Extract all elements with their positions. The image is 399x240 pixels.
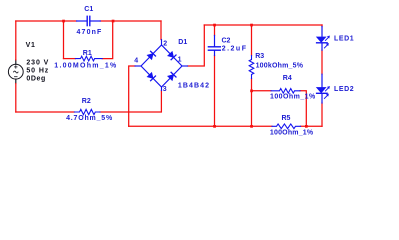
- wire R1 row right stub: [102, 21, 113, 59]
- wire C2 top stub: [214, 25, 216, 36]
- svg-text:50 Hz: 50 Hz: [26, 67, 49, 74]
- wire top rail left segment: [16, 20, 77, 22]
- wire R2 row left: [16, 111, 75, 113]
- svg-text:R3: R3: [255, 53, 264, 60]
- svg-text:R5: R5: [282, 115, 291, 122]
- svg-text:C2: C2: [222, 38, 231, 45]
- wire node2 riser: [160, 21, 162, 40]
- wire R3 bottom stub: [251, 79, 253, 127]
- LED LED1: [317, 27, 330, 51]
- svg-text:D1: D1: [178, 39, 187, 46]
- svg-text:LED1: LED1: [334, 35, 354, 42]
- junction rail/R1-loop-left: [62, 20, 65, 23]
- junction R3/R4 tap: [250, 90, 253, 93]
- svg-text:R2: R2: [82, 98, 91, 105]
- wire LED1 feed drop: [321, 25, 323, 27]
- diode D1d bottom-right arm: [168, 72, 176, 80]
- junction rail/C2 bottom: [213, 125, 216, 128]
- svg-text:3: 3: [163, 86, 167, 93]
- diode D1b top-right arm: [168, 52, 176, 60]
- svg-text:1: 1: [178, 56, 182, 63]
- wire node1 to DC+ riser: [188, 25, 205, 66]
- wires (red): [16, 21, 322, 126]
- wire R2 row right to node3 riser: [100, 91, 161, 113]
- wire LED1-LED2 series link: [321, 50, 323, 74]
- wire bottom rail right segment: [301, 125, 323, 127]
- resistor R4: [271, 89, 300, 94]
- wire C2 bottom stub: [214, 56, 216, 127]
- svg-text:230 V: 230 V: [26, 60, 49, 67]
- pin stubs: [161, 40, 163, 46]
- bridge rectifier D1: [135, 40, 188, 91]
- wire DC+ top rail: [204, 24, 322, 26]
- svg-text:R1: R1: [83, 50, 92, 57]
- svg-text:V1: V1: [26, 42, 36, 49]
- svg-text:100Ohm_1%: 100Ohm_1%: [270, 94, 316, 101]
- junction rail/R4 drop: [305, 125, 308, 128]
- wire top rail right of C1: [100, 20, 161, 22]
- svg-text:100Ohm_1%: 100Ohm_1%: [270, 130, 314, 137]
- resistor R5: [272, 124, 301, 129]
- resistor R3 (vertical): [249, 56, 254, 79]
- LED LED2: [317, 74, 330, 103]
- wire R1 loop left vertical: [63, 21, 65, 59]
- svg-text:0Deg: 0Deg: [26, 75, 46, 82]
- svg-text:100kOhm_5%: 100kOhm_5%: [256, 63, 304, 70]
- emission arrows: [325, 88, 328, 91]
- svg-text:C1: C1: [84, 6, 93, 13]
- wire bottom rail left segment: [129, 125, 272, 127]
- resistor R1: [75, 56, 102, 61]
- junction DC+/R3: [250, 24, 253, 27]
- svg-text:4.7Ohm_5%: 4.7Ohm_5%: [66, 115, 113, 122]
- svg-text:2: 2: [163, 40, 167, 47]
- svg-text:R4: R4: [283, 75, 292, 82]
- diode D1c bottom-left arm: [147, 73, 155, 81]
- junction rail/R3 bottom: [250, 125, 253, 128]
- diamond outline: [141, 45, 182, 87]
- wire R1 row left stub: [64, 58, 76, 60]
- resistor R2: [74, 109, 100, 114]
- capacitor C1: [77, 16, 101, 25]
- capacitor C2: [208, 36, 220, 56]
- wire R3 top stub: [251, 25, 253, 56]
- svg-text:4: 4: [134, 57, 138, 64]
- wire node4 stub and drop to bottom rail: [129, 66, 135, 126]
- svg-text:1.00MOhm_1%: 1.00MOhm_1%: [54, 63, 117, 70]
- junction rail/R1-loop-right: [112, 20, 115, 23]
- svg-text:2.2uF: 2.2uF: [222, 46, 248, 53]
- wire LED2 cathode to rail: [321, 103, 323, 126]
- emission arrows: [325, 37, 328, 40]
- junction DC+/C2: [213, 24, 216, 27]
- voltage source V1 circle: [8, 60, 23, 84]
- wire V1 bottom riser: [15, 84, 17, 112]
- wire R4 right feed and drop: [300, 91, 306, 127]
- wire V1 top riser: [15, 21, 17, 60]
- wire R4 left feed: [252, 90, 272, 92]
- svg-text:LED2: LED2: [334, 86, 354, 93]
- svg-text:1B4B42: 1B4B42: [178, 83, 210, 90]
- svg-text:470nF: 470nF: [77, 29, 103, 36]
- diode D1a top-left arm: [147, 51, 155, 59]
